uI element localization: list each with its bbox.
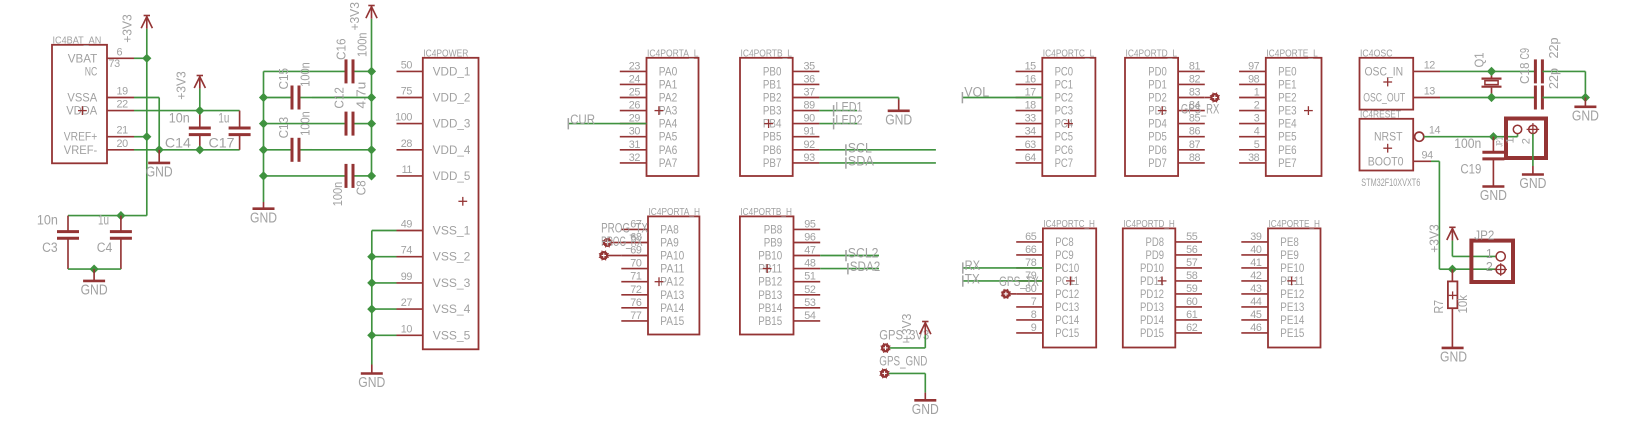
wire net SDA (819, 162, 936, 164)
junction node pin21 (142, 132, 151, 141)
svg-text:31: 31 (629, 139, 641, 151)
svg-text:5: 5 (1254, 139, 1260, 151)
svg-text:VSSA: VSSA (67, 91, 98, 105)
origin cross IC4PORTB_L (764, 123, 773, 125)
svg-text:32: 32 (629, 152, 641, 164)
IC IC4OSC (oscillator pins) (1360, 58, 1414, 110)
wire C3/C4 bottom rail (68, 268, 121, 270)
+3V3 supply arrow (JP2) (1449, 226, 1455, 228)
svg-text:2: 2 (1521, 138, 1533, 144)
IC IC4PORTA_L (PA0-PA7) (647, 58, 699, 176)
svg-text:PB7: PB7 (763, 156, 782, 170)
IC IC4PORTE_H (PE8-PE15) (1268, 228, 1321, 347)
svg-text:GND: GND (885, 111, 912, 128)
svg-text:75: 75 (401, 86, 413, 98)
pin 22 VDDA wire (107, 110, 134, 112)
wire net SDA2 (820, 268, 879, 270)
svg-text:2: 2 (1486, 260, 1493, 274)
svg-text:C18: C18 (1517, 63, 1532, 85)
svg-text:NC: NC (85, 64, 98, 78)
svg-text:GND: GND (146, 164, 173, 181)
svg-text:PC15: PC15 (1055, 326, 1079, 340)
svg-text:PA4: PA4 (659, 117, 678, 131)
wire net LED1 (819, 110, 857, 112)
svg-text:38: 38 (1248, 152, 1260, 164)
svg-text:16: 16 (1025, 73, 1037, 85)
svg-text:PC5: PC5 (1055, 130, 1074, 144)
svg-text:24: 24 (629, 73, 641, 85)
svg-text:100n: 100n (298, 62, 313, 87)
svg-text:46: 46 (1250, 322, 1262, 334)
svg-text:PE15: PE15 (1280, 326, 1304, 340)
wire net LED2 (819, 123, 857, 125)
svg-text:PB5: PB5 (763, 130, 782, 144)
label net SDA2 (847, 263, 849, 274)
svg-text:VSS_3: VSS_3 (433, 276, 471, 290)
svg-text:95: 95 (804, 218, 816, 230)
label net LED2 (833, 118, 835, 129)
wire PA9 stub (612, 242, 622, 244)
wire OSC_IN to C18 (1492, 70, 1537, 72)
junction node rail-right C13 (367, 145, 376, 154)
svg-text:PD8: PD8 (1146, 235, 1165, 249)
svg-text:PD2: PD2 (1148, 91, 1167, 105)
svg-text:PC1: PC1 (1055, 77, 1074, 91)
wire GPS_3V3 to +3V3 (890, 347, 926, 349)
svg-text:26: 26 (629, 100, 641, 112)
junction node rail-left C8 (259, 171, 268, 180)
svg-text:C3: C3 (42, 240, 58, 256)
wire OSC_OUT net (1440, 97, 1492, 99)
wire PA10 stub (608, 255, 621, 257)
svg-text:54: 54 (804, 310, 816, 322)
junction node rail-right C8 (367, 171, 376, 180)
wire OSC_OUT to C9 (1492, 97, 1537, 99)
IC IC4PORTA_H (PA8-PA15) (648, 216, 699, 334)
svg-text:IC4POWER: IC4POWER (423, 48, 468, 59)
svg-text:PA0: PA0 (659, 64, 678, 78)
label net SCL2 (845, 250, 847, 261)
svg-text:50: 50 (401, 59, 413, 71)
svg-text:PC9: PC9 (1055, 248, 1074, 262)
svg-text:98: 98 (1248, 73, 1260, 85)
junction node C3/C4 gnd (90, 265, 99, 274)
capacitor C17 1u (239, 111, 241, 128)
svg-text:PE14: PE14 (1280, 313, 1304, 327)
wire decoupling row C13 (264, 149, 293, 151)
svg-text:IC4PORTE_L: IC4PORTE_L (1266, 48, 1318, 59)
svg-text:72: 72 (630, 284, 642, 296)
svg-text:VREF-: VREF- (64, 143, 97, 157)
svg-text:C14: C14 (165, 135, 191, 151)
junction node C4 top (116, 211, 125, 220)
svg-text:PD9: PD9 (1146, 248, 1165, 262)
svg-text:10k: 10k (1455, 295, 1470, 314)
svg-text:IC4PORTA_H: IC4PORTA_H (649, 207, 701, 218)
svg-text:33: 33 (1025, 113, 1037, 125)
origin cross IC4PORTE_H (1287, 280, 1296, 282)
origin cross IC4PORTC_H (1066, 280, 1075, 282)
gnd GND (R7) (1442, 347, 1464, 350)
svg-text:96: 96 (804, 232, 816, 244)
svg-text:PB9: PB9 (764, 236, 783, 250)
svg-text:+3V3: +3V3 (120, 14, 135, 43)
svg-text:PC0: PC0 (1055, 64, 1074, 78)
svg-text:PB12: PB12 (758, 275, 782, 289)
svg-text:C8: C8 (354, 180, 369, 195)
junction node VSS_3 (367, 278, 376, 287)
junction node rail-left C13 (259, 145, 268, 154)
svg-text:PA2: PA2 (659, 91, 678, 105)
svg-text:VSS_2: VSS_2 (433, 250, 471, 264)
svg-text:58: 58 (1186, 270, 1198, 282)
svg-text:10n: 10n (169, 111, 190, 127)
svg-text:13: 13 (1424, 86, 1436, 98)
svg-text:IC4RESET: IC4RESET (1360, 109, 1401, 120)
svg-text:100n: 100n (1454, 136, 1481, 152)
svg-text:73: 73 (109, 58, 121, 70)
svg-text:JP1: JP1 (1494, 138, 1504, 147)
svg-text:OSC_OUT: OSC_OUT (1363, 91, 1405, 105)
svg-text:63: 63 (1025, 139, 1037, 151)
svg-text:51: 51 (804, 271, 816, 283)
label net CUR (567, 118, 569, 129)
label net SCL (845, 144, 847, 155)
wire net SCL2 (820, 255, 879, 257)
svg-text:PB15: PB15 (758, 314, 782, 328)
svg-text:PC6: PC6 (1055, 143, 1074, 157)
wire decoupling row C15 (264, 97, 293, 99)
svg-text:GND: GND (1480, 187, 1507, 204)
pin 20 VREF- wire (107, 149, 134, 151)
svg-text:PC3: PC3 (1055, 104, 1074, 118)
junction node rail-right C16 (367, 67, 376, 76)
wire +3V3 stem to VDDA (199, 89, 201, 111)
svg-text:C4: C4 (97, 240, 113, 256)
svg-text:20: 20 (117, 138, 129, 150)
wire VSS_3 to rail (372, 282, 397, 284)
wire GPS_GND to GND (889, 372, 925, 374)
gnd GND (C19) (1482, 185, 1504, 188)
wire +3V3 stem to VDD rail (371, 19, 373, 72)
svg-text:10: 10 (401, 323, 413, 335)
IC IC4PORTB_H (PB8-PB15) (740, 216, 794, 334)
wire VSS vertical rail (371, 231, 373, 365)
svg-text:PD0: PD0 (1148, 64, 1167, 78)
pad PA10 net end (599, 251, 608, 260)
svg-text:IC4PORTB_L: IC4PORTB_L (741, 48, 793, 59)
svg-text:VDD_1: VDD_1 (433, 64, 471, 78)
svg-text:8: 8 (1031, 309, 1037, 321)
svg-text:PD6: PD6 (1148, 143, 1167, 157)
svg-text:R7: R7 (1431, 300, 1446, 314)
svg-text:PC2: PC2 (1055, 91, 1074, 105)
svg-text:52: 52 (804, 284, 816, 296)
wire VSS_4 to rail (372, 308, 397, 310)
svg-text:PA8: PA8 (660, 222, 679, 236)
svg-text:PC14: PC14 (1055, 313, 1079, 327)
svg-text:34: 34 (1025, 126, 1037, 138)
svg-text:71: 71 (630, 271, 642, 283)
svg-text:PE1: PE1 (1278, 77, 1297, 91)
capacitor C18 22p (1534, 59, 1537, 83)
svg-text:47: 47 (804, 245, 816, 257)
svg-text:CUR: CUR (570, 112, 595, 128)
origin cross IC4PORTD_H (1158, 280, 1167, 282)
svg-text:PE0: PE0 (1278, 64, 1297, 78)
svg-text:PB0: PB0 (763, 64, 782, 78)
svg-text:1: 1 (1254, 87, 1260, 99)
svg-text:VDD_3: VDD_3 (433, 117, 471, 131)
junction node rail-right C12 (367, 119, 376, 128)
svg-text:PB6: PB6 (763, 143, 782, 157)
svg-text:PA6: PA6 (659, 143, 678, 157)
gnd GND (VSSA) (158, 150, 160, 163)
svg-text:74: 74 (401, 245, 413, 257)
svg-text:57: 57 (1186, 257, 1198, 269)
svg-text:PE10: PE10 (1280, 261, 1304, 275)
svg-text:VBAT: VBAT (68, 51, 98, 65)
svg-text:99: 99 (401, 271, 413, 283)
wire JP1 pin2 to GND (1532, 134, 1534, 166)
svg-text:VDD_2: VDD_2 (433, 91, 471, 105)
svg-text:18: 18 (1025, 100, 1037, 112)
svg-text:83: 83 (1189, 87, 1201, 99)
svg-text:IC4PORTD_L: IC4PORTD_L (1126, 48, 1178, 59)
origin cross IC4PORTD_L (1158, 110, 1167, 112)
junction node VREF-/VSSA (155, 145, 164, 154)
svg-text:PD15: PD15 (1140, 326, 1164, 340)
wire decoupling row C8 (264, 175, 347, 177)
junction node C14 bottom (195, 145, 204, 154)
svg-text:22p: 22p (1546, 38, 1561, 59)
svg-text:PD5: PD5 (1148, 130, 1167, 144)
label net TX (962, 275, 964, 286)
svg-text:56: 56 (1186, 244, 1198, 256)
pad GPS_GND (880, 369, 889, 378)
svg-text:VDD_4: VDD_4 (433, 143, 471, 157)
svg-text:VDD_5: VDD_5 (433, 169, 471, 183)
svg-text:IC4PORTA_L: IC4PORTA_L (647, 48, 699, 59)
wire decoupling row C16 (264, 70, 347, 72)
svg-text:IC4OSC: IC4OSC (1360, 48, 1393, 59)
svg-text:C19: C19 (1460, 162, 1481, 178)
svg-text:PD7: PD7 (1148, 156, 1167, 170)
capacitor C13 100n (291, 138, 294, 162)
junction node osc gnd (1581, 93, 1590, 102)
svg-text:1: 1 (1486, 247, 1493, 261)
svg-text:92: 92 (804, 139, 816, 151)
svg-text:91: 91 (804, 126, 816, 138)
svg-text:1u: 1u (218, 111, 229, 127)
svg-text:48: 48 (804, 258, 816, 270)
svg-text:100n: 100n (330, 182, 345, 207)
svg-text:BOOT0: BOOT0 (1368, 154, 1404, 168)
pin 21 VREF+ wire (107, 136, 134, 138)
svg-text:PB13: PB13 (758, 288, 782, 302)
jumper JP1 (reset button pads) (1506, 119, 1546, 159)
junction node rail-left C15 (259, 93, 268, 102)
svg-text:36: 36 (804, 73, 816, 85)
svg-text:VOL: VOL (964, 84, 989, 100)
IC IC4POWER (STM32 supply pins) (423, 58, 479, 350)
svg-text:PE13: PE13 (1280, 300, 1304, 314)
wire PC12 stub (1010, 293, 1016, 295)
crystal Q1 (1491, 71, 1493, 77)
origin cross IC4PORTE_L (1304, 110, 1313, 112)
svg-text:88: 88 (1189, 152, 1201, 164)
pad PD2 net end (1210, 93, 1219, 102)
wire +3V3 vertical rail (146, 29, 148, 216)
svg-text:PROG_RX: PROG_RX (601, 234, 643, 250)
svg-text:1: 1 (1505, 137, 1517, 143)
svg-text:C15: C15 (276, 68, 291, 90)
wire OSC_IN net (1440, 70, 1492, 72)
svg-text:IC4PORTC_L: IC4PORTC_L (1043, 48, 1095, 59)
svg-text:PA11: PA11 (660, 262, 684, 276)
wire C18 to gnd corner (1542, 70, 1585, 72)
resistor R7 10k (1451, 269, 1453, 281)
svg-text:VSS_4: VSS_4 (433, 302, 471, 316)
wire VSS_5 to rail (372, 334, 397, 336)
junction node rail-right C15 (367, 93, 376, 102)
junction node NRST (1489, 132, 1498, 141)
gnd GND (OSC) (1584, 98, 1586, 107)
wire VSS_1 to rail (372, 230, 397, 232)
svg-text:C12: C12 (331, 87, 346, 109)
svg-text:2: 2 (1254, 100, 1260, 112)
+3V3 supply arrow (POWER) (368, 5, 374, 7)
IC IC4PORTD_L (PD0-PD7) (1125, 58, 1178, 176)
wire decoupling row C12 (264, 123, 347, 125)
svg-text:GND: GND (912, 401, 939, 418)
svg-text:87: 87 (1189, 139, 1201, 151)
svg-text:4.7u: 4.7u (354, 82, 369, 109)
svg-text:PE9: PE9 (1280, 248, 1299, 262)
svg-text:27: 27 (401, 297, 413, 309)
svg-text:90: 90 (804, 113, 816, 125)
wire PD2 stub (1205, 97, 1211, 99)
svg-text:NRST: NRST (1374, 130, 1403, 144)
svg-text:PA7: PA7 (659, 156, 678, 170)
svg-text:OSC_IN: OSC_IN (1365, 64, 1404, 78)
+3V3 supply arrow (GPS) (922, 321, 928, 323)
svg-text:1u: 1u (98, 213, 109, 229)
svg-text:SDA2: SDA2 (850, 259, 881, 275)
origin cross IC4BAT_AN (78, 110, 87, 112)
junction node C14 top (195, 106, 204, 115)
svg-text:STM32F10XVXT6: STM32F10XVXT6 (1361, 177, 1420, 189)
svg-text:+3V3: +3V3 (347, 2, 362, 31)
svg-text:89: 89 (804, 100, 816, 112)
svg-text:PE12: PE12 (1280, 287, 1304, 301)
svg-text:Q1: Q1 (1471, 53, 1486, 68)
svg-text:37: 37 (804, 87, 816, 99)
svg-text:PA5: PA5 (659, 130, 678, 144)
gnd GND (VSS rail) (371, 365, 373, 374)
svg-text:GND: GND (250, 209, 277, 226)
svg-text:PA12: PA12 (660, 275, 684, 289)
svg-text:LED2: LED2 (835, 112, 862, 128)
svg-text:60: 60 (1186, 296, 1198, 308)
IC IC4PORTC_H (PC8-PC15) (1043, 228, 1096, 347)
svg-text:15: 15 (1025, 60, 1037, 72)
svg-text:94: 94 (1422, 149, 1434, 161)
svg-text:PE2: PE2 (1278, 91, 1297, 105)
svg-text:PB3: PB3 (763, 104, 782, 118)
svg-text:GND: GND (1440, 348, 1467, 365)
svg-text:PA1: PA1 (659, 77, 678, 91)
gnd GND (PB2) (898, 100, 900, 111)
svg-text:53: 53 (804, 297, 816, 309)
svg-text:PE3: PE3 (1278, 104, 1297, 118)
svg-text:11: 11 (402, 164, 413, 176)
svg-text:PD13: PD13 (1140, 300, 1164, 314)
svg-text:PE8: PE8 (1280, 235, 1299, 249)
wire NRST net (1424, 136, 1494, 138)
svg-text:TX: TX (965, 272, 981, 288)
gnd GND (GPS) (924, 393, 926, 401)
svg-text:77: 77 (630, 310, 642, 322)
+3V3 supply arrow (BAT) (144, 15, 150, 17)
svg-text:GND: GND (358, 374, 385, 391)
svg-text:PD12: PD12 (1140, 287, 1164, 301)
+3V3 supply arrow (VDDA/C14) (197, 75, 203, 77)
svg-text:22: 22 (117, 99, 129, 111)
svg-text:100n: 100n (355, 33, 370, 58)
svg-text:39: 39 (1250, 231, 1262, 243)
junction node BOOT0/R7 (1448, 265, 1457, 274)
wire C3/C4 top rail (68, 215, 147, 217)
wire VDD vertical rail (371, 71, 373, 175)
svg-text:PD10: PD10 (1140, 261, 1164, 275)
origin cross IC4PORTC_L (1064, 123, 1073, 125)
svg-text:PB1: PB1 (763, 77, 782, 91)
wire net VOL to PC2 (962, 97, 1042, 99)
svg-text:C9: C9 (1517, 48, 1532, 60)
svg-text:23: 23 (629, 60, 641, 72)
capacitor C9 22p (1534, 86, 1537, 110)
origin cross IC4RESET (1383, 147, 1392, 149)
svg-text:PE7: PE7 (1278, 156, 1297, 170)
svg-text:30: 30 (629, 126, 641, 138)
svg-text:3: 3 (1254, 113, 1260, 125)
svg-text:VREF+: VREF+ (64, 130, 97, 144)
svg-text:PA15: PA15 (660, 314, 684, 328)
origin cross IC4OSC (1383, 81, 1392, 83)
svg-text:44: 44 (1250, 296, 1262, 308)
IC IC4RESET (reset/boot pins) (1360, 119, 1414, 171)
wire JP2 pin2 net (1452, 268, 1496, 270)
wire NRST into JP1 (1493, 136, 1517, 138)
svg-text:PB8: PB8 (764, 222, 783, 236)
svg-text:+3V3: +3V3 (174, 71, 189, 100)
wire net RX to PC10 (963, 267, 1043, 269)
svg-text:IC4PORTC_H: IC4PORTC_H (1043, 219, 1095, 230)
svg-text:C17: C17 (209, 135, 235, 151)
svg-text:VSS_5: VSS_5 (433, 328, 471, 342)
svg-text:22p: 22p (1546, 68, 1561, 89)
wire C9 to gnd (1542, 97, 1585, 99)
origin cross IC4POWER (458, 200, 467, 202)
svg-text:GPS_RX: GPS_RX (1181, 101, 1220, 117)
svg-text:41: 41 (1250, 257, 1262, 269)
pin 6 VBAT wire (107, 57, 134, 59)
svg-text:64: 64 (1025, 152, 1037, 164)
IC IC4PORTD_H (PD8-PD15) (1123, 228, 1176, 347)
svg-text:PE5: PE5 (1278, 130, 1297, 144)
svg-text:97: 97 (1248, 60, 1260, 72)
